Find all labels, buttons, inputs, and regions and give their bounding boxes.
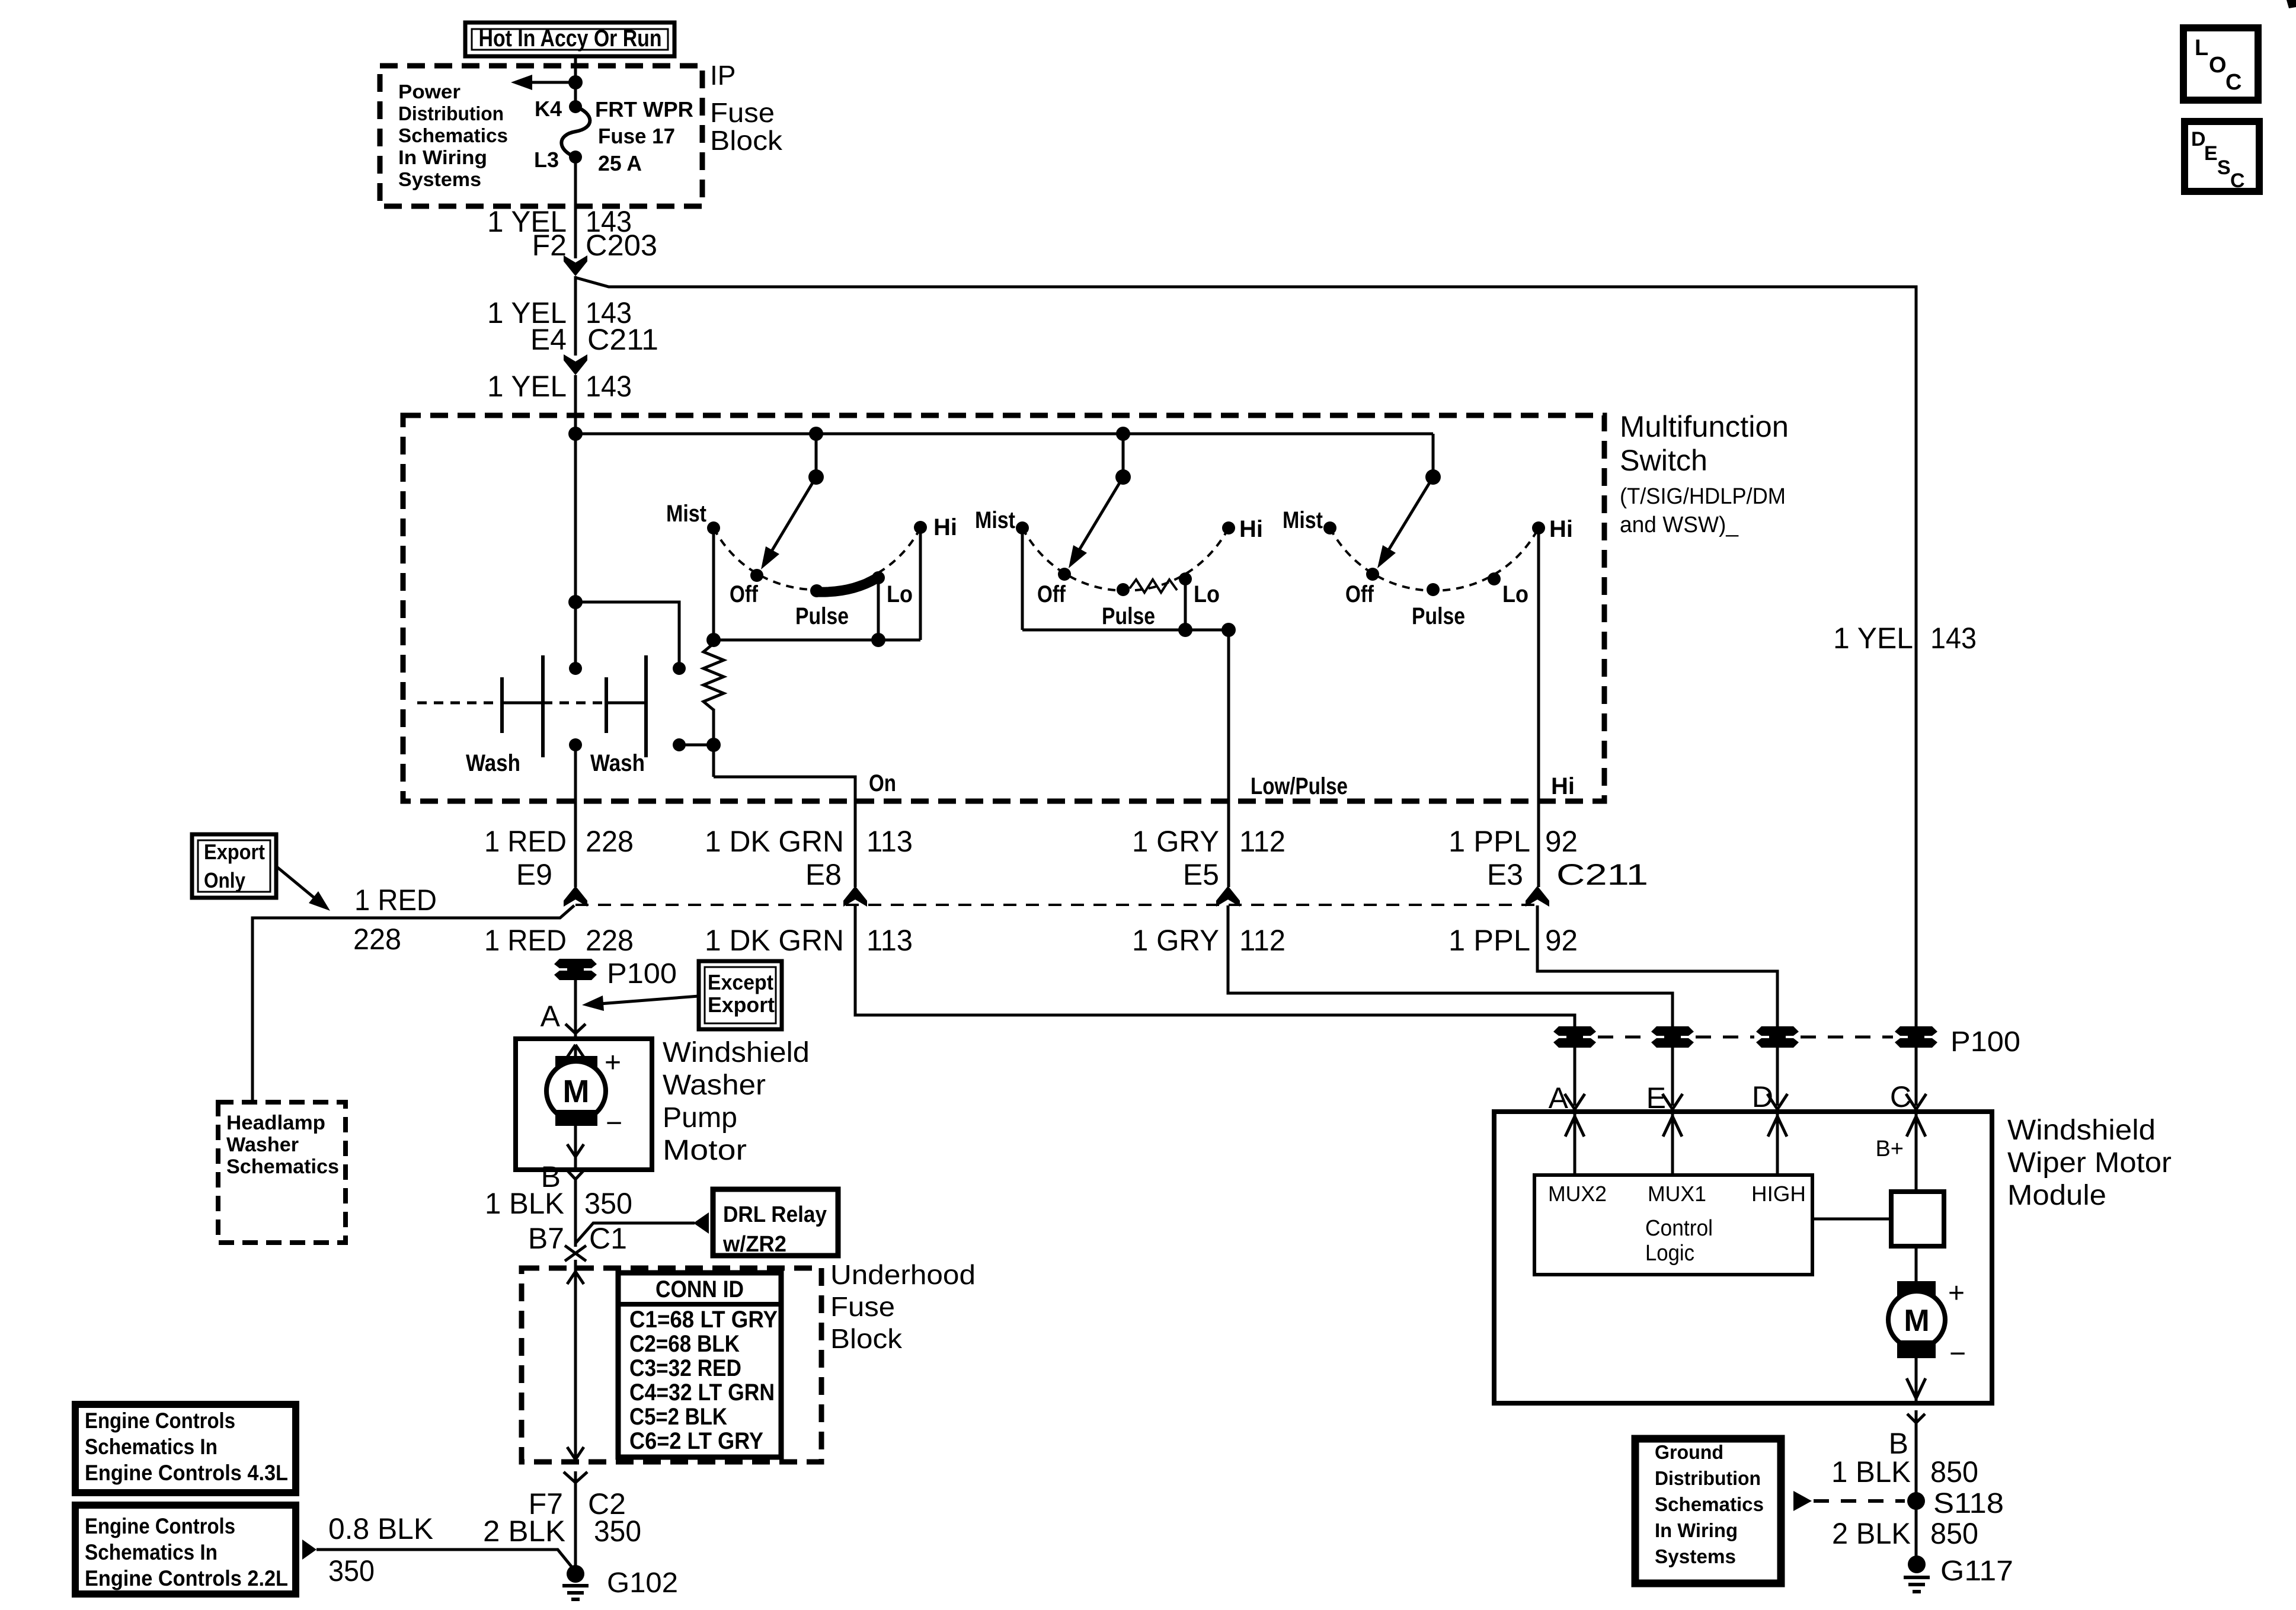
wire On output (dk grn) inside box [714,777,855,887]
svg-text:1 YEL: 1 YEL [487,370,567,403]
ground G102 [567,1565,584,1583]
wire module pin A to MUX2 [1574,1112,1576,1175]
svg-text:L: L [2195,36,2208,60]
feed rail inside switch [575,433,1433,436]
svg-text:143: 143 [1930,622,1977,655]
junction dot rail at wiper-1 pivot [809,427,823,441]
svg-text:In Wiring: In Wiring [398,146,487,168]
wash pole-1 lower contact [569,738,582,751]
svg-text:Engine Controls 2.2L: Engine Controls 2.2L [85,1566,288,1590]
svg-text:Washer: Washer [226,1134,299,1156]
svg-text:On: On [869,770,896,796]
wire module pin C B+ to relay [1915,1112,1918,1192]
svg-text:Systems: Systems [1655,1545,1736,1567]
svg-text:Pulse: Pulse [1102,603,1155,629]
svg-text:M: M [1904,1304,1929,1338]
connector C211 dashed line [575,904,1537,906]
svg-text:Only: Only [204,868,245,892]
label box Export Only [192,834,276,898]
svg-text:Washer: Washer [663,1070,766,1101]
svg-text:1 DK GRN: 1 DK GRN [705,825,844,858]
svg-text:Lo: Lo [1194,581,1220,607]
svg-text:C3=32 RED: C3=32 RED [629,1355,741,1381]
svg-text:Export: Export [204,840,265,864]
svg-text:Wash: Wash [590,750,645,776]
svg-text:P100: P100 [607,958,677,990]
fuse block exit arrow [567,1447,575,1459]
wash pole-2 moving bar [644,655,648,757]
svg-text:Lo: Lo [1502,581,1528,607]
switch-1 Mist contact [707,521,720,534]
svg-text:Schematics In: Schematics In [85,1540,218,1564]
switch-2 Pulse contact [1117,583,1130,596]
svg-text:350: 350 [328,1554,375,1587]
junction dot to power-distribution arrow [568,75,583,89]
switch-1 Hi wire down [919,527,922,640]
svg-text:Hi: Hi [1239,516,1263,542]
switch-3 Hi contact [1532,521,1545,534]
svg-text:S: S [2217,156,2231,179]
svg-text:Schematics: Schematics [1655,1493,1764,1515]
switch-3 pivot dot [1425,469,1441,485]
wash actuator link (dashed) [417,702,502,705]
fuse block entry arrow [567,1272,575,1284]
inline connector P100 (washer feed) [554,959,597,968]
svg-text:Wiper Motor: Wiper Motor [2007,1147,2172,1179]
washer motor output arrow [574,1126,577,1154]
wire relay to wiper motor [1915,1246,1918,1283]
svg-text:Hi: Hi [933,514,957,540]
svg-text:Schematics: Schematics [226,1156,339,1178]
label box Except Export [699,961,782,1029]
svg-text:w/ZR2: w/ZR2 [722,1232,786,1257]
svg-text:228: 228 [586,924,634,957]
svg-text:K4: K4 [535,97,562,121]
svg-text:Distribution: Distribution [1655,1467,1761,1489]
svg-text:Fuse: Fuse [830,1291,895,1322]
svg-text:D: D [2191,128,2206,151]
switch-2 contact arc (dashed) [1022,528,1229,591]
switch-2 Off contact [1058,568,1071,581]
svg-text:Mist: Mist [666,501,706,527]
svg-text:0.8 BLK: 0.8 BLK [328,1512,433,1545]
Multifunction Switch dashed box [403,415,1604,801]
svg-text:112: 112 [1239,825,1285,858]
svg-text:In Wiring: In Wiring [1655,1519,1738,1541]
svg-text:O: O [2209,53,2227,78]
switch-3 Mist contact [1323,521,1336,534]
pin B chevron (module) [1907,1414,1916,1423]
svg-text:2 BLK: 2 BLK [1832,1517,1911,1550]
svg-text:Fuse: Fuse [710,97,775,128]
wire P100-A to module pin A [1574,1047,1576,1106]
wire through underhood fuse block [574,1260,577,1463]
svg-text:Off: Off [1345,581,1374,607]
wire P100 to pin A [574,980,577,1039]
svg-text:113: 113 [866,924,913,957]
svg-text:+: + [1948,1278,1965,1309]
svg-text:Fuse 17: Fuse 17 [598,124,675,148]
svg-text:DRL Relay: DRL Relay [723,1202,827,1227]
svg-text:Mist: Mist [975,507,1015,533]
switch-1 rail dot at Lo [871,633,885,647]
wire branch to DRL relay [575,1223,695,1243]
switch-2 Lo wire down [1184,579,1187,630]
wire control logic to relay [1812,1218,1891,1221]
svg-text:E5: E5 [1183,858,1219,891]
svg-text:Control: Control [1645,1216,1713,1241]
connector B7/C1 X symbol [565,1246,586,1261]
svg-text:1 GRY: 1 GRY [1132,825,1219,858]
wire pole-2 lower contact to resistor output [679,744,714,747]
wire hot feed from Hot In Accy Or Run box down into IP fuse block [574,56,577,107]
svg-text:A: A [541,1000,561,1033]
switch-2 pivot stub [1122,434,1125,477]
svg-text:350: 350 [584,1187,632,1220]
pin F7 chevron [564,1472,575,1483]
svg-text:Engine Controls: Engine Controls [85,1409,235,1433]
connector E9 arrow [564,886,587,907]
svg-text:1 BLK: 1 BLK [1831,1455,1911,1489]
svg-text:Logic: Logic [1645,1241,1694,1266]
svg-text:Hi: Hi [1549,516,1573,542]
svg-text:25 A: 25 A [598,151,642,175]
svg-text:Export: Export [708,993,775,1017]
DESC reference box [2185,121,2259,191]
svg-text:Except: Except [708,970,773,994]
switch-2 Mist wire down [1021,528,1024,630]
label box Engine Controls 2.2L [75,1505,296,1594]
svg-text:Engine Controls 4.3L: Engine Controls 4.3L [85,1461,288,1485]
svg-text:Lo: Lo [887,581,913,607]
svg-text:Low/Pulse: Low/Pulse [1251,773,1348,799]
wire module pin E to MUX1 [1671,1112,1674,1175]
switch-2 pivot dot [1115,469,1131,485]
wash pole-1 moving bar [541,655,545,757]
svg-text:1 BLK: 1 BLK [485,1187,564,1220]
wire P100-D to module pin D [1776,1047,1779,1106]
switch-1 Hi contact [914,521,927,534]
switch-1 pivot dot [808,469,824,485]
switch-2 output rail [1022,629,1229,632]
svg-text:Multifunction: Multifunction [1620,410,1789,443]
wire 1 YEL 143 from fuse to C203 [574,157,577,258]
resistor output junction dot [706,738,721,752]
washer motor + terminal (black) [555,1056,597,1072]
switch-1 Mist wire down [712,528,715,640]
switch-1 rail dot left [706,633,721,647]
wiper motor M circle [1888,1291,1945,1348]
connector C203 arrow [564,255,587,276]
switch-1 Off contact [750,569,763,582]
connector E8 arrow [843,886,867,907]
wire 1 RED 228 from wash switch to E9 [574,745,577,887]
arrow from Except Export to wire [600,996,699,1004]
svg-text:E4: E4 [530,323,567,356]
svg-text:Windshield: Windshield [2007,1115,2156,1146]
svg-text:Off: Off [730,581,759,607]
wash pole-1 upper contact [569,662,582,675]
inline connector P100 pin E [1651,1026,1694,1036]
switch-1 Pulse contact [810,584,823,597]
Windshield Washer Pump Motor box [516,1039,652,1170]
wire 1 RED 228 export only [252,905,574,1102]
svg-text:M: M [563,1074,590,1109]
pin B chevron [566,1169,575,1179]
switch-1 contact arc (dashed) [714,528,920,590]
svg-text:L3: L3 [534,148,559,172]
svg-text:850: 850 [1930,1517,1978,1550]
svg-text:112: 112 [1239,924,1285,957]
svg-text:350: 350 [594,1515,641,1548]
svg-text:Pulse: Pulse [795,603,849,629]
svg-text:Pulse: Pulse [1412,603,1465,629]
svg-text:1 RED: 1 RED [484,825,567,858]
svg-text:E: E [2204,142,2218,165]
svg-text:C: C [2225,70,2241,95]
svg-text:228: 228 [353,923,401,956]
switch-2 Hi contact [1222,521,1235,534]
svg-text:C211: C211 [1556,858,1648,891]
svg-text:MUX2: MUX2 [1548,1182,1607,1206]
arrow to Power Distribution Schematics (points left) [532,81,575,84]
junction dot wash feed [568,595,583,609]
svg-text:1 PPL: 1 PPL [1448,825,1530,858]
pin A chevron (module) [1565,1094,1575,1109]
svg-text:B7: B7 [528,1222,564,1255]
ground G117 [1908,1555,1926,1573]
switch-1 output rail [714,639,920,642]
svg-text:F2: F2 [532,229,567,262]
svg-text:C211: C211 [587,323,658,356]
resistor lower lead [712,709,715,777]
svg-text:Block: Block [830,1323,903,1354]
svg-text:C: C [2230,169,2245,192]
connector E3 arrow [1526,886,1549,907]
svg-text:1 YEL: 1 YEL [1833,622,1913,655]
svg-text:Hi: Hi [1551,773,1575,799]
relay square [1891,1192,1944,1246]
svg-text:Ground: Ground [1655,1441,1723,1463]
svg-text:Switch: Switch [1620,444,1707,477]
wire 2 BLK 350 to G102 [574,1471,577,1571]
svg-text:G117: G117 [1940,1555,2013,1587]
svg-text:1 DK GRN: 1 DK GRN [705,924,844,957]
CONN ID table [618,1273,781,1457]
pin E chevron (module) [1662,1094,1673,1109]
wire module pin D to HIGH [1776,1112,1779,1175]
svg-text:Schematics In: Schematics In [85,1435,218,1459]
wash pole-2 lower contact [673,738,686,751]
label box Ground Distribution [1635,1439,1781,1583]
switch-3 lever arrow (points to Off) [1387,477,1433,553]
svg-text:113: 113 [866,825,913,858]
svg-text:C1: C1 [589,1222,627,1255]
svg-text:Underhood: Underhood [830,1259,976,1290]
svg-text:C5=2 BLK: C5=2 BLK [629,1404,727,1430]
switch-3 Off contact [1366,568,1379,581]
wire 1 BLK 350 washer to B7 [574,1178,577,1247]
switch-3 Lo contact [1488,572,1501,585]
svg-text:C2=68 BLK: C2=68 BLK [629,1331,740,1357]
switch-2 lever arrow (points to Off) [1077,477,1123,553]
wire 1 YEL 143 C203 to C211 [574,276,577,356]
svg-text:E8: E8 [805,858,842,891]
svg-text:S118: S118 [1933,1488,2004,1519]
wire Low/Pulse output inside box [1227,630,1230,887]
arrow from Export Only to wire [276,866,317,900]
svg-text:92: 92 [1545,825,1578,858]
switch-1 lever arrow (points to Off) [770,477,816,554]
svg-text:143: 143 [586,370,632,403]
svg-text:Module: Module [2007,1180,2106,1211]
svg-text:Off: Off [1037,581,1066,607]
pin C chevron (module) [1906,1094,1916,1109]
resistor between switch-2 Pulse and Lo [1130,580,1177,593]
svg-text:92: 92 [1545,924,1578,957]
svg-text:1 RED: 1 RED [354,884,437,917]
svg-text:Mist: Mist [1283,507,1323,533]
junction dot rail at wiper-2 pivot [1116,427,1130,441]
svg-text:G102: G102 [607,1567,678,1599]
svg-text:C203: C203 [586,229,657,262]
svg-text:1 GRY: 1 GRY [1132,924,1219,957]
svg-text:HIGH: HIGH [1751,1182,1806,1206]
pin A chevron [565,1024,575,1033]
svg-text:MUX1: MUX1 [1648,1182,1706,1206]
wire gry to P100-E [1228,905,1673,1027]
svg-text:−: − [1949,1338,1966,1369]
wash pole-2 upper contact [673,662,686,675]
splice S118 [1907,1492,1925,1510]
wire 1 BLK 850 module to S118 [1915,1410,1918,1564]
label box Engine Controls 4.3L [75,1404,296,1493]
svg-text:C1=68 LT GRY: C1=68 LT GRY [629,1307,778,1333]
washer motor - terminal (black) [555,1110,597,1126]
svg-text:and WSW)_: and WSW)_ [1620,513,1739,537]
svg-text:IP: IP [710,60,736,91]
svg-text:2 BLK: 2 BLK [483,1515,565,1548]
wash pole-2 short bar [605,677,608,733]
svg-text:CONN ID: CONN ID [655,1276,744,1302]
connector C211 arrow [564,354,587,375]
inline connector P100 pin A [1553,1026,1596,1036]
switch-1 Lo wire down [877,578,880,640]
arrow from Ground Distribution (dashed) to S118 [1793,1491,1812,1511]
svg-text:Headlamp: Headlamp [226,1112,325,1134]
resistor (pulse delay) below switch-1 [703,644,724,710]
svg-text:−: − [606,1108,622,1139]
label box Hot In Accy Or Run [465,23,674,56]
svg-text:1 PPL: 1 PPL [1448,924,1530,957]
inline connector P100 pin C [1895,1026,1937,1036]
svg-text:850: 850 [1930,1455,1978,1489]
wire P100-C to module pin C [1915,1047,1918,1106]
svg-text:Motor: Motor [663,1135,747,1166]
svg-text:1 RED: 1 RED [484,924,567,957]
svg-text:E3: E3 [1487,858,1523,891]
svg-text:228: 228 [586,825,634,858]
wiper motor output wire [1915,1358,1918,1403]
switch-2 rail dot at Lo [1178,623,1192,637]
label box DRL Relay w/ZR2 [713,1189,838,1256]
svg-text:Windshield: Windshield [663,1037,810,1068]
pin D chevron (module) [1767,1094,1777,1109]
switch-2 rail dot at Hi [1221,623,1236,637]
switch-1 Pulse-Lo wiper blade (thick) [817,578,877,592]
wiper motor + terminal (black) [1897,1281,1936,1299]
Control Logic box [1534,1175,1812,1275]
svg-text:Pump: Pump [663,1102,737,1134]
svg-text:+: + [605,1047,621,1078]
wire wash feed to pole-2 [575,602,679,668]
Windshield Wiper Motor Module box [1494,1112,1992,1403]
svg-text:C6=2 LT GRY: C6=2 LT GRY [629,1428,763,1454]
svg-text:(T/SIG/HDLP/DM: (T/SIG/HDLP/DM [1620,484,1786,509]
wire Hi output inside box [1537,528,1540,887]
switch-2 Mist contact [1016,521,1029,534]
switch-1 Lo contact [872,571,885,584]
wash pole-1 short bar [500,677,504,733]
connector P100 dashed links [1598,1036,1649,1039]
svg-text:Block: Block [710,125,783,156]
svg-text:C4=32 LT GRN: C4=32 LT GRN [629,1379,775,1406]
fuse FRT WPR Fuse 17 25 A (element) [561,107,590,157]
Headlamp Washer Schematics dashed box [218,1102,346,1243]
washer motor M circle [546,1061,606,1121]
switch-3 Pulse contact [1427,583,1440,596]
svg-text:Distribution: Distribution [398,103,504,124]
junction dot rail at feed [568,427,583,441]
svg-text:Power: Power [398,81,461,103]
page corner mark [2287,0,2296,8]
inline connector P100 pin D [1756,1026,1799,1036]
wire 1 YEL 143 into multifunction switch [574,375,577,668]
LOC reference box [2183,28,2258,100]
wire branch to right-side 1 YEL 143 [577,278,1916,1027]
wiper motor - terminal (black) [1897,1340,1936,1358]
svg-text:Engine Controls: Engine Controls [85,1514,235,1538]
svg-text:Wash: Wash [466,750,520,776]
wire dk grn to P100-A [855,905,1575,1027]
Underhood Fuse Block dashed box [522,1268,821,1462]
IP Fuse Block dashed box [380,66,702,206]
switch-1 pivot stub [815,434,818,477]
switch-3 rail drop [1432,434,1435,477]
svg-text:FRT WPR: FRT WPR [595,97,693,121]
svg-text:Schematics: Schematics [398,124,508,146]
washer motor feed arrow [567,1045,575,1057]
svg-text:P100: P100 [1950,1026,2020,1058]
switch-3 contact arc (dashed) [1330,528,1539,591]
wire 0.8 BLK 350 from engine controls [302,1539,316,1560]
switch-2 Lo contact [1179,572,1192,585]
svg-text:Hot In Accy Or Run: Hot In Accy Or Run [479,25,662,52]
connector E5 arrow [1216,886,1240,907]
wire ppl to P100-D [1537,905,1777,1027]
svg-text:B+: B+ [1875,1137,1904,1161]
svg-text:Systems: Systems [398,168,481,190]
svg-text:E9: E9 [516,858,552,891]
wire P100-E to module pin E [1671,1047,1674,1106]
